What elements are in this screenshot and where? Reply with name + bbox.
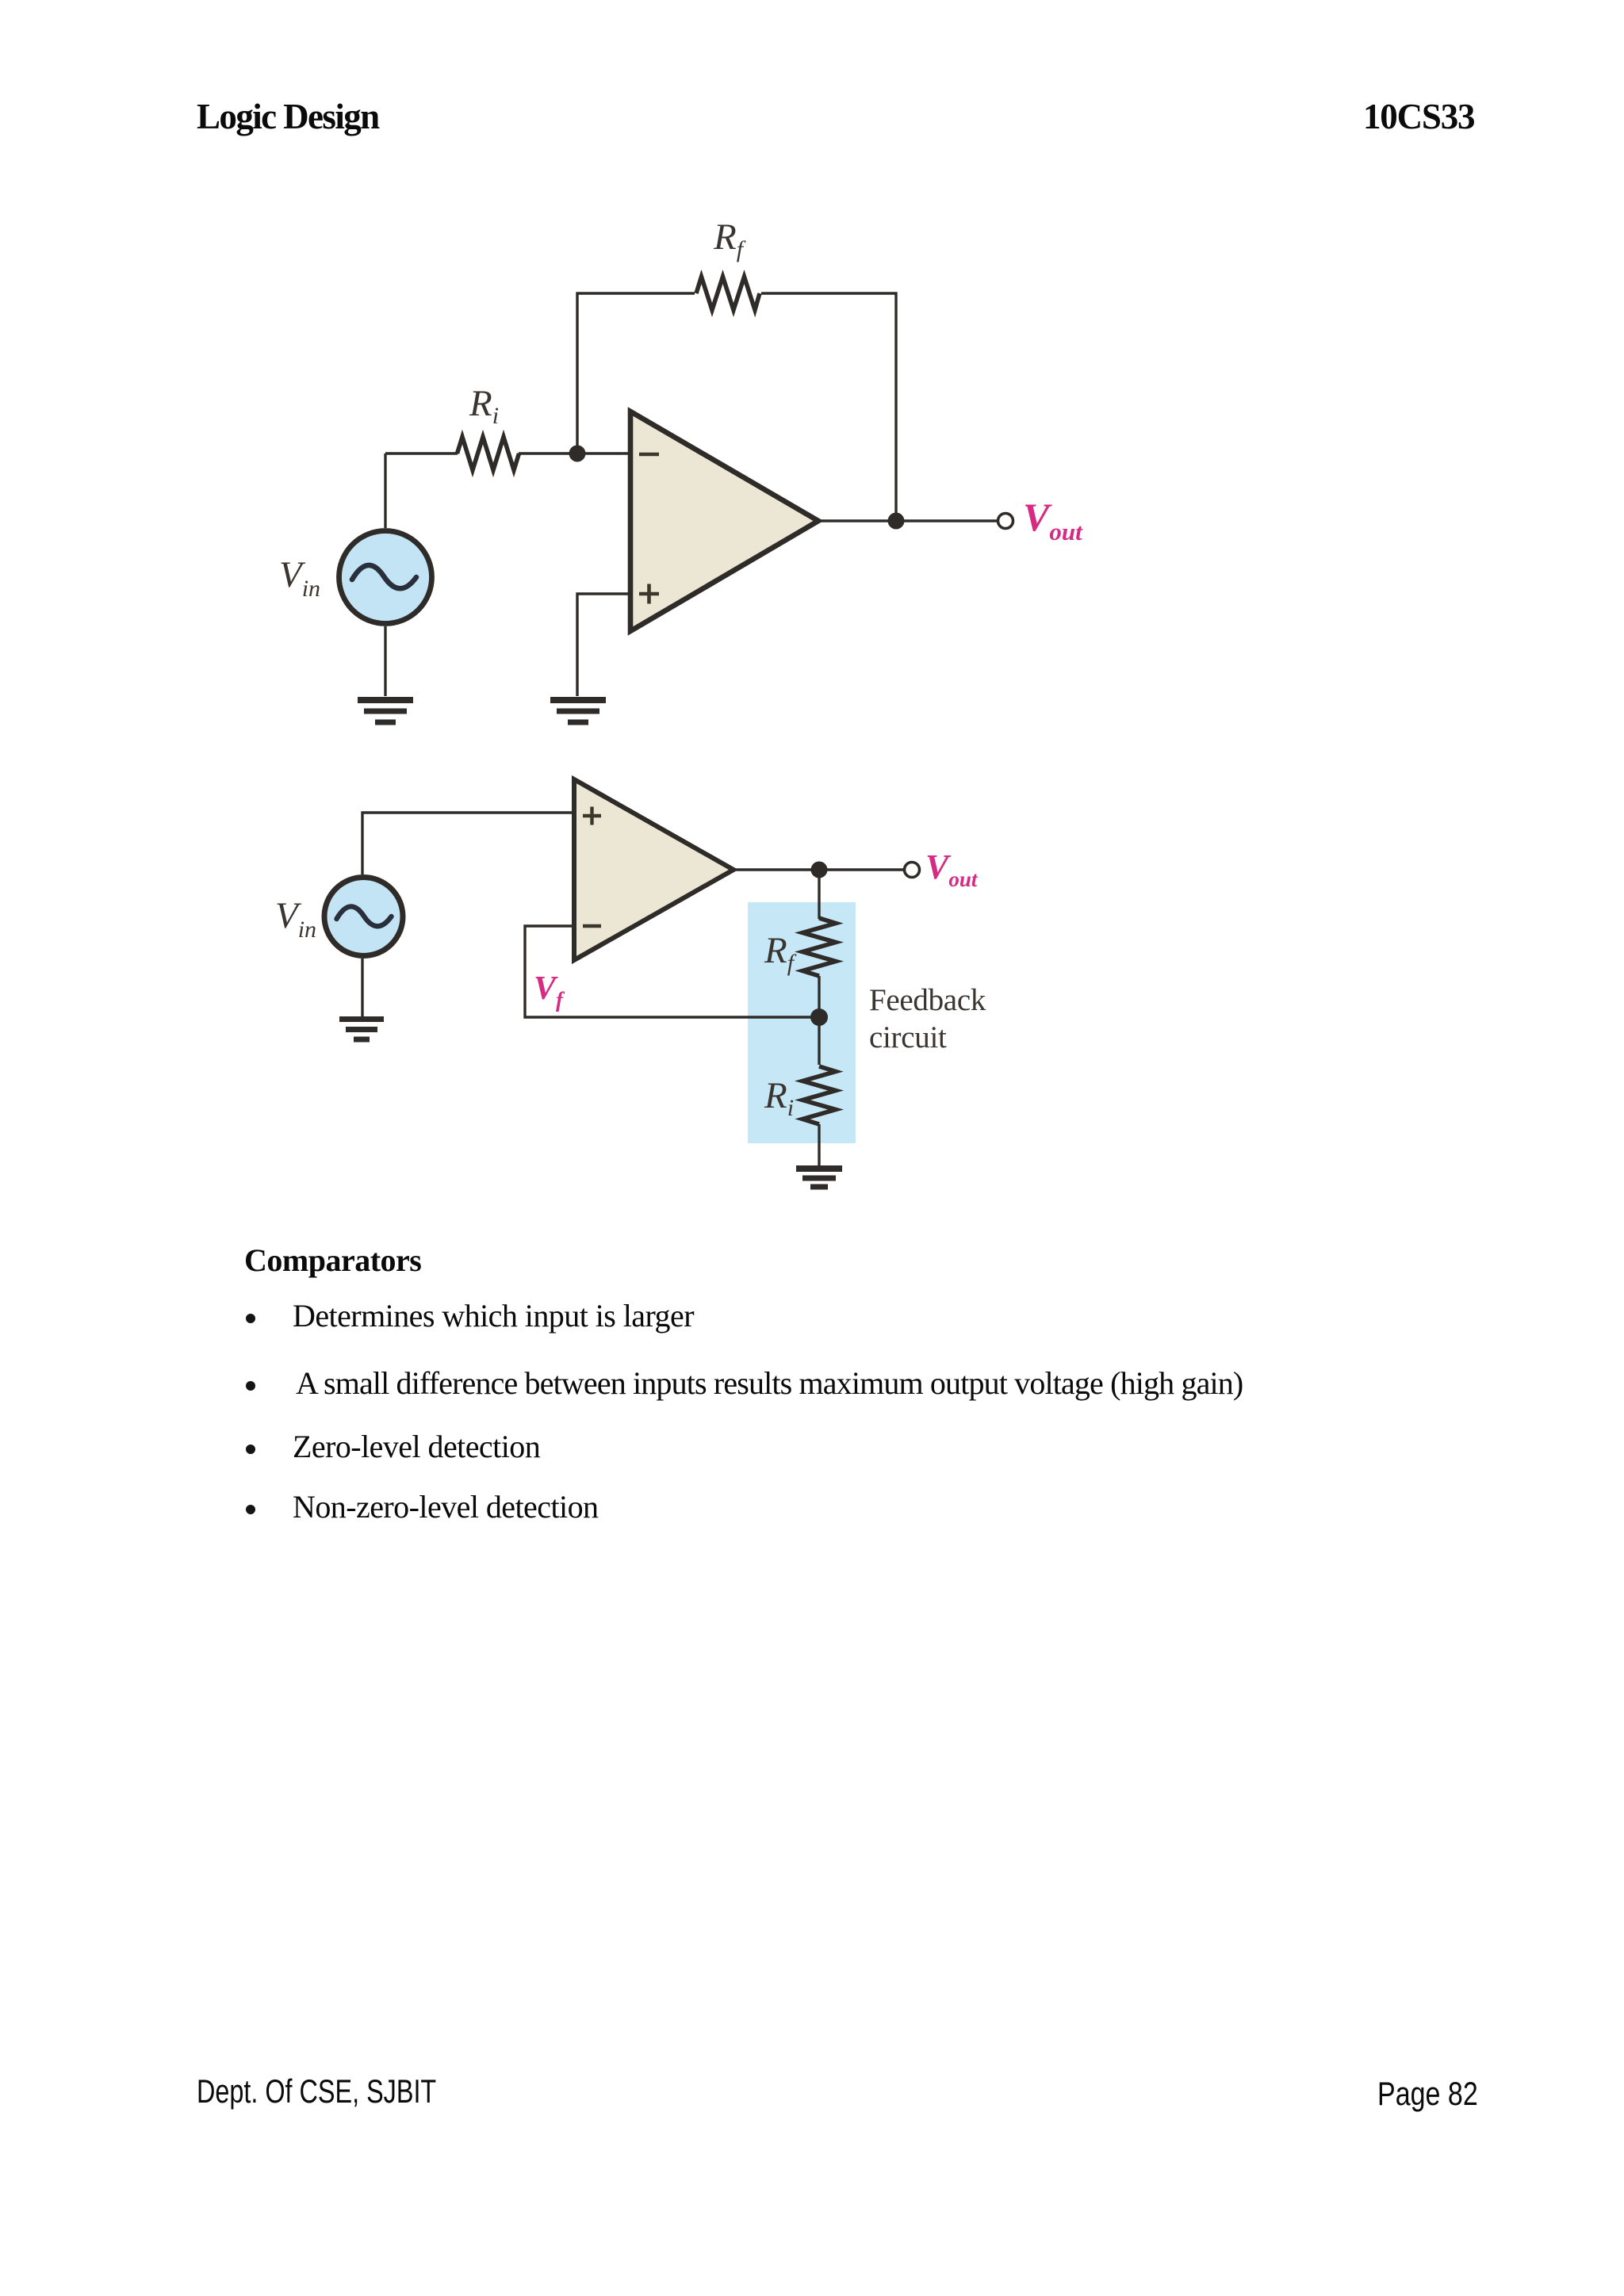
bullet item 1	[246, 1314, 255, 1323]
op-amp U1	[630, 411, 818, 631]
svg-text:Vin: Vin	[275, 895, 316, 943]
header right: 10CS33	[1363, 96, 1474, 137]
pin label plus (U2 non-inverting)	[583, 807, 601, 825]
wire Vin to resistor Ri	[385, 452, 458, 454]
source Vin (V2)	[324, 878, 403, 956]
wire Rf to output branch, down to output node	[761, 293, 896, 521]
pin label minus (U2 inverting)	[583, 924, 601, 928]
wire Vin (V2) to op-amp non-inverting input	[362, 813, 574, 874]
svg-text:Rf: Rf	[713, 216, 746, 262]
node B (between Rf and Ri)	[810, 1008, 828, 1026]
wire Ri to op-amp inverting input	[519, 452, 630, 454]
svg-text:Ri: Ri	[469, 383, 499, 429]
bullet item 2	[246, 1381, 255, 1391]
wire from Vin source V1 up to input level	[384, 453, 386, 528]
svg-text:Vout: Vout	[1023, 495, 1083, 545]
wire output node down to Rf	[818, 870, 820, 919]
wire Rf to node B	[818, 976, 820, 1017]
resistor Ri	[458, 437, 519, 470]
footer left	[197, 2072, 436, 2110]
ground (below Vin V1)	[358, 700, 413, 722]
header left: Logic Design	[197, 96, 379, 137]
section heading: Comparators	[244, 1242, 421, 1279]
node output junction (circuit 1)	[888, 513, 905, 530]
wire Vin source V1 to ground	[384, 626, 386, 696]
svg-text:Vout: Vout	[925, 848, 979, 891]
svg-text:Vin: Vin	[279, 554, 320, 602]
wire Ri to ground	[818, 1124, 820, 1166]
svg-text:Feedback: Feedback	[869, 983, 986, 1017]
ground (below Vin V2)	[339, 1020, 384, 1040]
svg-text:circuit: circuit	[869, 1020, 947, 1054]
wire Vin source V2 to ground	[361, 959, 363, 1017]
node A (inverting input junction)	[569, 446, 586, 462]
wire op-amp output to terminal	[733, 868, 904, 871]
bullet item 3	[246, 1445, 255, 1454]
output terminal (open circle, circuit 2)	[905, 863, 920, 878]
node output junction (circuit 2)	[811, 862, 828, 878]
svg-text:Vf: Vf	[534, 970, 565, 1012]
resistor Ri (vertical, circuit 2)	[802, 1066, 836, 1124]
wire node B to inverting input (Vf path)	[525, 926, 819, 1017]
wire output to open terminal	[818, 519, 997, 522]
op-amp U2	[574, 779, 733, 960]
wire feedback: node A up, across to Rf	[577, 293, 695, 453]
wire node B down to Ri	[818, 1017, 820, 1065]
resistor Rf (vertical, circuit 2)	[802, 918, 836, 976]
ground (below Ri, circuit 2)	[796, 1169, 842, 1187]
footer right	[1377, 2075, 1478, 2113]
ground (below U1 non-inverting input)	[550, 700, 606, 722]
source Vin (V1)	[339, 531, 432, 624]
wire op-amp non-inverting input to ground	[577, 594, 630, 696]
bullet item 4	[246, 1505, 255, 1514]
output terminal (open circle, circuit 1)	[998, 514, 1013, 529]
feedback circuit highlight box	[748, 902, 856, 1143]
resistor Rf	[696, 277, 760, 310]
pin label minus (U1 inverting)	[639, 453, 659, 457]
pin label plus (U1 non-inverting)	[639, 584, 659, 604]
